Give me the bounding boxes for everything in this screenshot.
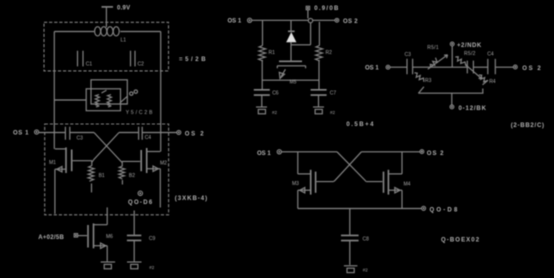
dashed box resonator [44,22,169,71]
capacitor C4 [139,127,143,140]
capacitor C1 [78,51,84,67]
resonator inner symbol left [95,95,99,107]
resistor R4 [479,75,488,85]
wire main left [413,66,467,68]
svg-text:0.9/0B: 0.9/0B [314,6,339,12]
transistor M1 [55,147,92,173]
svg-text:OS 2: OS 2 [343,19,358,25]
capacitor C4 [488,59,496,74]
terminal bias node [138,191,142,195]
wire gate stub right [121,162,123,166]
wire bottom rail [418,92,483,94]
node circle [308,18,312,22]
transistor M4 [366,152,402,195]
wire right rail [160,32,162,152]
wire M4 source rail [401,190,403,208]
wire M3 source rail [297,190,299,208]
svg-text:#2: #2 [272,110,278,115]
svg-text:0.9V: 0.9V [117,5,130,11]
resonator inner tick [102,90,107,93]
wire top rail right [120,31,160,33]
wire OS1 to node [252,19,309,21]
wire R4 to rail [482,89,484,94]
wire to resonator box [54,99,86,101]
svg-text:M1: M1 [49,160,56,166]
svg-text:R3: R3 [425,78,432,84]
transistor M2 [122,148,160,173]
wire supply bottom [451,93,453,105]
svg-text:R5/2: R5/2 [464,51,476,57]
wire OS1 top left [281,151,337,153]
wire C7 to ground [318,95,320,106]
svg-text:M4: M4 [404,182,411,188]
wire OS1 to C3 [39,132,66,134]
terminal bias input [74,234,77,237]
wire left branch lower [261,60,263,89]
diode D1 [286,31,296,42]
svg-text:C9: C9 [149,236,156,242]
svg-text:R2: R2 [326,50,333,56]
ground bias [101,262,115,269]
arrow R5/1 [428,55,448,69]
power VDD lead wire [105,8,107,27]
svg-text:M6: M6 [106,234,113,240]
wire left branch upper [262,20,264,45]
tuning arrow circle 2 [134,90,137,93]
svg-text:#2: #2 [149,265,155,270]
wire bias source [106,246,108,262]
svg-text:OS 2: OS 2 [522,66,542,72]
wire bias drain [106,207,108,224]
wire cap C9 top [133,211,135,235]
wire tail cap [349,209,351,235]
wire bottom rail [298,208,422,210]
svg-text:#2: #2 [363,268,369,273]
ground tail [344,266,358,273]
svg-text:OS 1: OS 1 [365,65,379,71]
svg-text:OS 2: OS 2 [185,131,205,137]
svg-text:A+02/5B: A+02/5B [38,235,64,241]
terminal OS2 [420,150,424,154]
inductor L2 [88,166,94,182]
wire top rail left [54,31,94,33]
capacitor C3 [65,127,69,140]
capacitor C8 [341,235,359,240]
svg-text:Q-BOEX02: Q-BOEX02 [441,237,480,243]
svg-text:QO-D6: QO-D6 [128,200,154,206]
svg-text:OS 1: OS 1 [228,18,242,24]
svg-text:C4: C4 [487,52,494,58]
wire top right [361,151,420,153]
svg-text:(3XKB-4): (3XKB-4) [175,196,208,202]
capacitor C5 [467,61,473,74]
terminal tail [422,206,426,210]
transistor M5 [277,61,305,78]
svg-text:Y5/C2B: Y5/C2B [126,110,155,116]
wire gate stub left [91,161,93,166]
wire cap C9 bottom [133,241,135,262]
svg-text:#2: #2 [330,110,336,115]
wire left rail [53,32,55,149]
terminal supply top [450,42,454,46]
resistor R5/1 [430,58,437,67]
wire left rail lower [54,169,56,214]
capacitor C6 [254,90,270,95]
power VDD bar [102,6,114,8]
wire main right [474,66,488,68]
wire supply [307,10,309,19]
svg-text:OS 1: OS 1 [13,130,29,136]
svg-text:B2: B2 [129,173,135,179]
wire right rail lower [159,169,161,208]
svg-text:C3: C3 [405,52,412,58]
ground cap C9 [127,262,142,269]
wire C4 to OS2 terminal [142,132,176,134]
resonator inner symbol right [107,95,111,107]
svg-text:+2/NDK: +2/NDK [457,43,482,49]
wire L2 stub [91,184,93,193]
terminal OS2 [335,18,339,22]
terminal OS2 [177,130,181,134]
ground left [256,107,267,114]
wire source rail [262,79,318,81]
resonator box front rectangle [86,89,120,111]
cross-couple diagonal 2 [92,133,119,163]
svg-text:C4: C4 [145,135,152,141]
cross diagonal 2 [334,152,362,182]
wire R3 to rail [418,87,424,93]
svg-text:(2-BB2/C): (2-BB2/C) [511,123,545,129]
wire C8 to ground [349,241,351,265]
transistor M3 [298,152,334,195]
dashed box core [45,124,169,215]
svg-text:B1: B1 [99,173,105,179]
resistor R3 [415,73,424,82]
svg-text:L1: L1 [121,38,127,44]
wire cross to C4 [119,132,139,134]
svg-text:R1: R1 [269,50,276,56]
terminal OS1 [277,150,281,154]
svg-text:OS 2: OS 2 [427,151,445,157]
terminal OS1 [386,65,390,69]
svg-text:R5/1: R5/1 [427,45,439,51]
wire C3 to cross [70,132,94,134]
svg-text:C8: C8 [363,236,370,242]
capacitor C2 [131,51,136,67]
wire OS1 to C3 [390,66,407,68]
arrow R5/2 [465,65,482,79]
svg-text:QO-D8: QO-D8 [430,207,460,213]
capacitor C9 [127,235,141,240]
terminal supply bottom [450,105,454,109]
inductor L3 [119,166,125,179]
wire diode bottom [291,23,311,45]
svg-text:0.5B+4: 0.5B+4 [346,122,375,128]
capacitor C7 [311,90,327,95]
wire C6 to ground [261,95,263,106]
wire right branch lower [318,60,320,89]
wire L3 stub [121,180,123,185]
svg-text:M2: M2 [160,160,167,166]
terminal OS1 [35,130,39,134]
terminal OS1 [248,18,252,22]
resonator box back rectangle [91,80,127,104]
resistor R1 [259,46,266,61]
wire bias gate [78,235,87,237]
inductor L1 [95,27,120,36]
wire supply top [451,46,453,67]
svg-text:OS 1: OS 1 [257,151,271,157]
wire right branch upper [318,22,320,46]
wire gate lead [290,45,292,61]
ground right [313,107,324,114]
capacitor C3 [407,59,413,74]
wire resonator to back box [121,103,128,105]
tuning arrow stroke [120,96,128,103]
tuning arrow circle 1 [130,92,133,95]
svg-text:C1: C1 [86,61,93,67]
svg-text:0-12/BK: 0-12/BK [459,106,487,112]
wire node to OS2 [313,19,335,21]
terminal supply [306,6,309,9]
transistor M6 [88,223,107,248]
svg-text:M3: M3 [292,181,299,187]
svg-text:C3: C3 [77,136,84,142]
svg-text:C7: C7 [330,91,337,97]
cross-couple diagonal 1 [94,133,122,163]
resistor R2 [315,46,322,61]
wire C4 to OS2 [496,66,513,68]
svg-text:=5/2B: =5/2B [179,57,208,63]
resistor R5/2 [455,57,466,66]
svg-text:C2: C2 [138,61,145,67]
diode D1 lead [290,20,292,31]
svg-text:C6: C6 [272,91,279,97]
svg-text:R4: R4 [489,79,496,85]
cross diagonal 1 [337,152,366,182]
terminal OS2 [513,65,517,69]
